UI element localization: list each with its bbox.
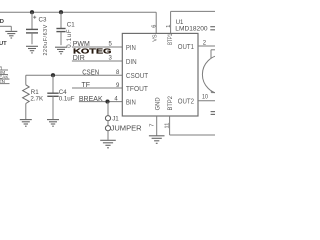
wire jumper to ground <box>107 131 109 140</box>
svg-text:LMD18200: LMD18200 <box>175 26 208 33</box>
svg-text:DIN: DIN <box>126 57 137 66</box>
svg-text:10: 10 <box>202 95 208 101</box>
capacitor C1 <box>60 12 62 28</box>
wire BTP2 down and off right edge <box>169 116 171 135</box>
motor M1 circle (clipped at right edge) <box>202 55 241 94</box>
wire OUT1 to right edge <box>198 45 215 47</box>
wire GND stub <box>0 25 11 27</box>
node junction dot C3 tap <box>30 10 34 14</box>
node junction dot jumper tap <box>105 100 109 104</box>
svg-text:PIN: PIN <box>126 43 136 52</box>
wire motor bottom terminal <box>211 92 215 94</box>
ground below C4 <box>47 119 59 121</box>
resistor R1 <box>25 75 27 85</box>
svg-text:GND: GND <box>156 97 162 111</box>
svg-text:GND: GND <box>0 19 4 25</box>
wire OUT2 to right edge <box>198 100 215 102</box>
ground below C1 <box>55 46 67 48</box>
svg-text:C3: C3 <box>39 16 47 23</box>
svg-text:C1: C1 <box>67 21 75 28</box>
wire motor top terminal <box>211 49 215 51</box>
svg-text:BTP1: BTP1 <box>168 33 174 45</box>
wire BTP1 up and off right edge <box>170 11 172 33</box>
ground below R1 <box>20 119 32 121</box>
op-amp U1 LMD18200 body <box>122 33 198 116</box>
svg-text:TFOUT: TFOUT <box>126 84 148 93</box>
wire PWM to pin 5 <box>72 46 122 48</box>
svg-text:BIN: BIN <box>126 97 136 106</box>
svg-text:7: 7 <box>150 124 156 127</box>
svg-text:VOUT: VOUT <box>0 41 7 47</box>
wire VS supply drop to pin 6 <box>155 12 157 33</box>
capacitor C4 <box>52 75 54 93</box>
wire DIR to pin 3 <box>72 60 122 62</box>
node junction dot C1 tap <box>59 10 63 14</box>
svg-text:5: 5 <box>108 41 112 47</box>
svg-text:OUT1: OUT1 <box>178 42 194 51</box>
wire BREAK to pin 4 <box>79 101 122 103</box>
svg-text:CSOUT: CSOUT <box>126 71 149 80</box>
capacitor C3 <box>31 12 33 29</box>
jumper J1 pin 2 circle <box>105 126 110 131</box>
wire TF to pin 9 <box>72 87 122 89</box>
svg-text:220uF/63V: 220uF/63V <box>43 24 49 55</box>
ground below IC pin 7 <box>149 135 165 137</box>
ground GND symbol top-left <box>5 30 17 32</box>
ground below jumper JU1 <box>100 139 116 141</box>
svg-text:2.7K: 2.7K <box>30 96 44 103</box>
wire GND pin down <box>156 116 158 135</box>
wire CSEN to pin 8 <box>26 74 123 76</box>
svg-text:0.1uF: 0.1uF <box>59 96 75 103</box>
capacitor C5 plates (clipped at right edge) <box>211 111 215 113</box>
wire VS top rail <box>0 11 156 13</box>
svg-text:OUT2: OUT2 <box>178 97 194 106</box>
node junction dot C4 tap <box>51 73 55 77</box>
svg-text:2: 2 <box>203 40 207 46</box>
svg-text:BTP2: BTP2 <box>168 95 174 110</box>
svg-text:3: 3 <box>108 55 112 61</box>
svg-text:VS: VS <box>153 34 159 42</box>
jumper J1 link <box>107 121 109 126</box>
jumper J1 pin 1 circle <box>105 116 110 121</box>
svg-text:J1: J1 <box>112 116 119 123</box>
ground below C3 <box>26 45 38 47</box>
capacitor C2 plates (clipped at right edge, top) <box>210 26 215 28</box>
svg-text:JUMPER: JUMPER <box>111 123 142 132</box>
svg-text:6: 6 <box>151 25 157 28</box>
wire BREAK tap down to jumper <box>107 102 109 116</box>
